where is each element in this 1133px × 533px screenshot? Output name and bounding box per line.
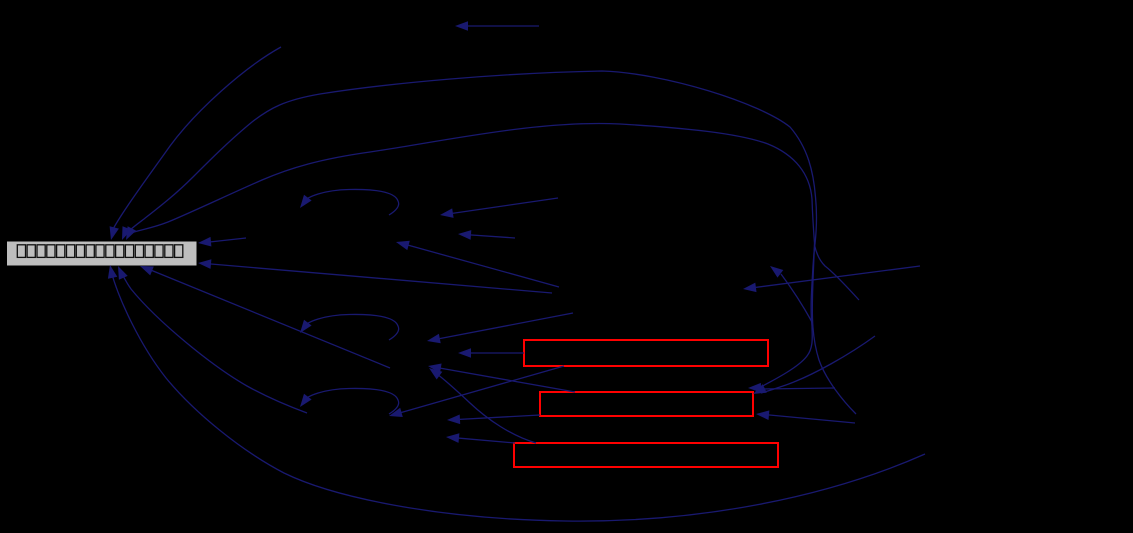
arrowhead T15 (427, 334, 441, 344)
node: red box 3 (514, 443, 778, 467)
arrowhead: short top arrow (455, 21, 468, 31)
arrowhead T3 at node right edge (198, 237, 211, 247)
arrowhead T17a (428, 364, 442, 374)
arrowhead bottom sweep at node bottom (108, 265, 117, 279)
arrowhead T19 (389, 408, 403, 417)
edge C1: arc from (281,47) to node top (112, 47, 281, 231)
edge L: big lower sweep from (856,414) to node top (128, 123, 856, 414)
edge: short top arrow line (463, 25, 539, 27)
arrowhead T12 (458, 230, 471, 240)
edge: line from red box1 bottom to middle node C top (396, 366, 564, 414)
edge: long line from (552,293) to node right edge (205, 264, 552, 294)
edge: line into red box2 right edge (764, 415, 855, 424)
arrowhead T4 at node right edge (198, 259, 211, 269)
node: red box 1 (524, 340, 768, 366)
arrowhead T7 at node bottom (140, 266, 154, 275)
edge: curve from red box3 top to middle node B (437, 374, 536, 443)
arrowhead Ea pointing up-left (770, 266, 783, 278)
edge D1: from (875,336) to red box2 corner (761, 336, 875, 393)
edge L1: from (920,266) leftward (751, 266, 920, 288)
arrowhead T17b (429, 368, 442, 380)
arrowhead m17 (446, 433, 459, 443)
arrowhead: self-loop on middle node A (300, 195, 312, 208)
arrowhead T13 (396, 241, 410, 250)
node: red box 2 (540, 392, 753, 416)
arrowhead at red box2 right edge (756, 410, 769, 420)
arrowhead m16 (447, 415, 460, 425)
edge: self-loop arc on middle node A (303, 189, 399, 215)
edge: curve from (307,413) to node bottom (121, 271, 307, 413)
edge stub: tail (859,300) joining vertical track (815, 245, 860, 300)
edge: line from red box1 left edge to middle node B (466, 352, 524, 354)
edge: big bottom sweep from (925,454) to node bottom (111, 271, 925, 521)
arrowhead L1 (743, 283, 757, 293)
arrowhead C1 at node top (110, 226, 119, 240)
arrowhead D1 at red box2 corner (753, 384, 767, 394)
arrowhead T11 (440, 208, 454, 218)
arrowhead T6 at node bottom (118, 266, 128, 280)
edge: line from (390,368) to node bottom (147, 269, 390, 369)
arrowhead T16 (458, 348, 471, 358)
arrowhead U at node top (122, 226, 131, 240)
node: current function (gray box with tofu glyphs) (7, 241, 198, 266)
arrowhead: self-loop on middle node C (300, 394, 312, 407)
edge: line from red box2 top edge to middle node B (436, 367, 575, 392)
edge: line from (559,287) to middle node A bottom (404, 244, 559, 287)
edge: short line from (246,238) to node right edge (205, 238, 246, 243)
edge: line from (558,198) to middle node A top (448, 198, 558, 214)
edge: line from red box3 corner leftward (454, 438, 515, 443)
arrowhead L at node top (126, 226, 136, 240)
edge: horizontal line into red box2 corner (760, 388, 835, 389)
edge Ea: curve to arrow (770,266) (781, 274, 812, 322)
edge: line from red box2 left edge leftward (455, 415, 540, 420)
arrowhead at red box2 top-right corner (748, 383, 761, 393)
edge U: big upper sweep from red box 2 corner to node top (125, 71, 816, 390)
edge: self-loop arc on middle node B (303, 314, 399, 340)
edge: line from (573,313) to middle node B right edge (435, 313, 573, 340)
edge: self-loop arc on middle node C (303, 388, 399, 414)
arrowhead: self-loop on middle node B (300, 320, 312, 333)
edge: short line from (515,238) to middle node A right edge (466, 235, 515, 238)
